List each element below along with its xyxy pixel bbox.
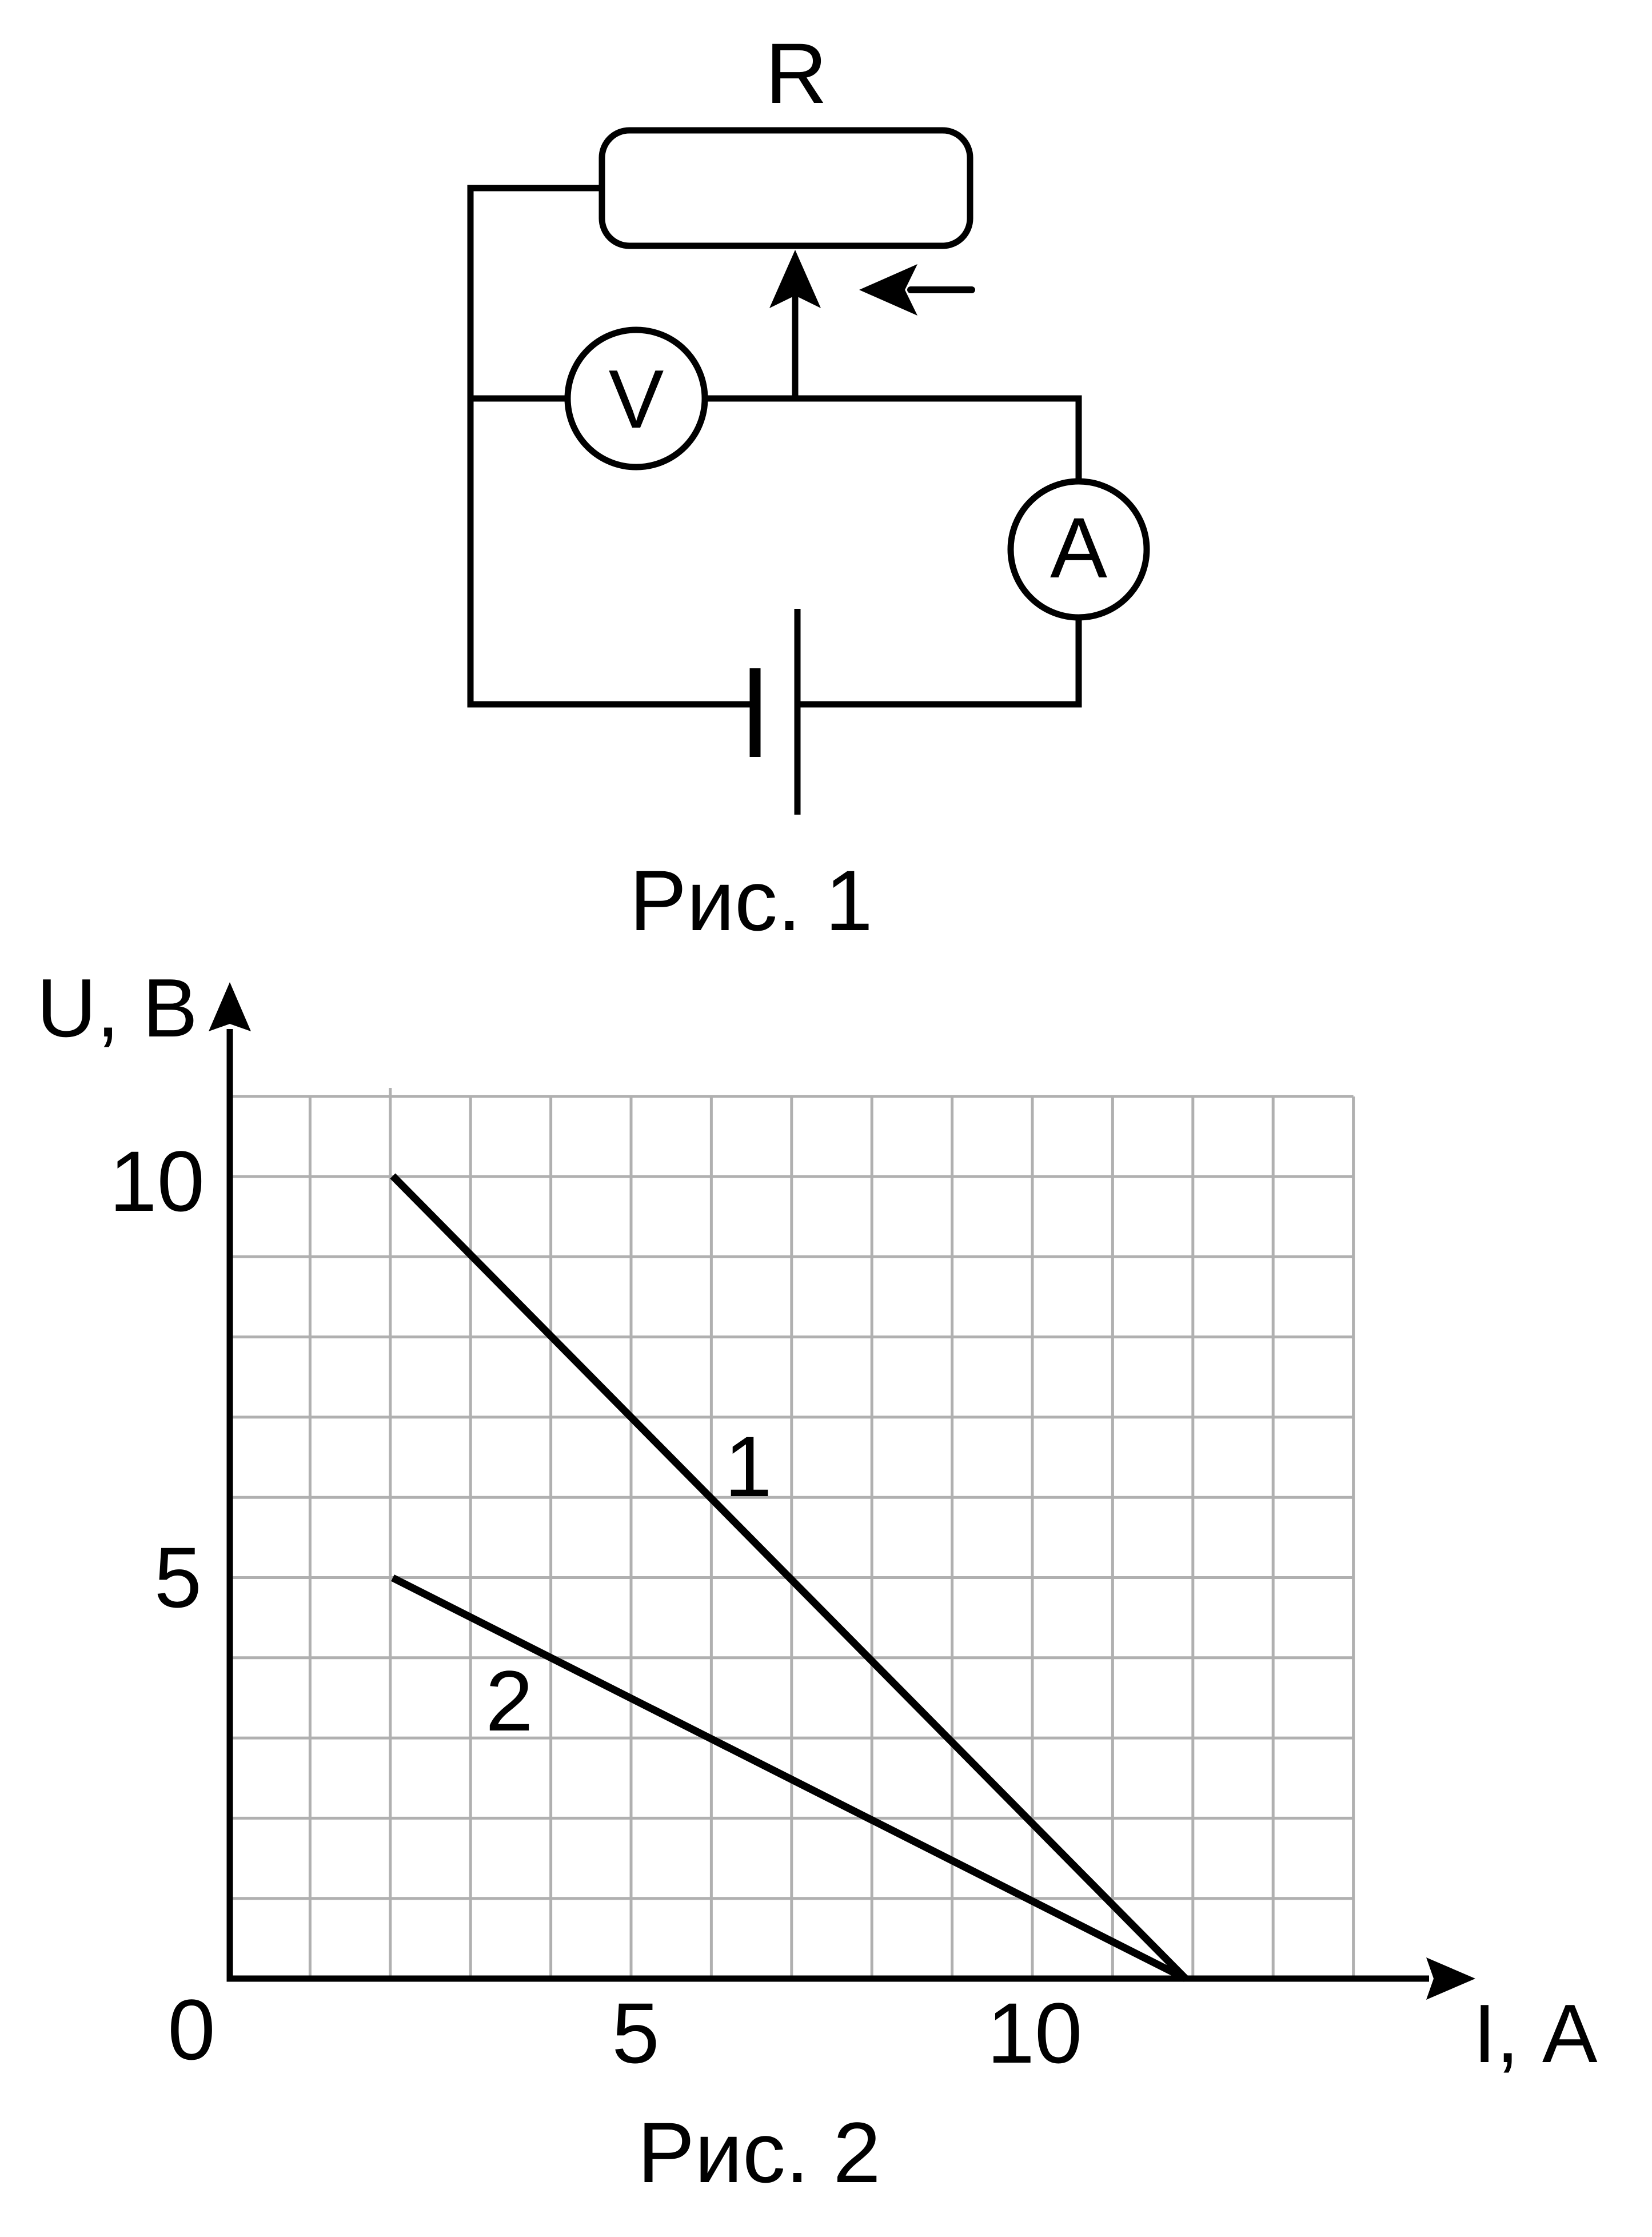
battery positive plate (long) [795,609,801,815]
rheostat wiper arrowhead [769,250,821,308]
svg-text:I, А: I, А [1473,1987,1598,2080]
slider adjust arrowhead [859,264,917,316]
wire bottom right segment [797,701,1082,708]
battery negative plate (short thick) [750,668,761,757]
svg-text:R: R [765,25,827,121]
svg-text:Рис. 2: Рис. 2 [637,2104,881,2200]
ammeter A1 circle [1011,481,1147,617]
slider adjust arrow shaft [911,286,972,293]
wire left vertical [468,185,474,708]
svg-text:V: V [609,353,664,445]
y axis arrowhead [209,982,251,1031]
x axis I [227,1976,1430,1982]
svg-text:2: 2 [485,1653,533,1749]
svg-text:U, В: U, В [37,962,198,1054]
svg-text:Рис. 1: Рис. 1 [629,852,873,948]
svg-text:10: 10 [987,1985,1083,2081]
rheostat wiper arrow shaft [792,296,799,398]
svg-text:5: 5 [612,1985,659,2081]
svg-text:1: 1 [724,1418,772,1514]
wire middle horizontal right segment (voltmeter to right corner) [705,396,1082,402]
wire middle horizontal left segment (left wire to voltmeter) [468,396,569,402]
wire bottom left segment [468,701,753,708]
voltmeter U1 circle [568,330,705,467]
wire stub rheostat-left to left vertical wire [468,185,602,192]
y axis U [227,1029,233,1982]
curve 2 [393,1578,1186,1979]
x axis arrowhead [1426,1957,1475,2000]
wire right vertical upper (corner to ammeter) [1076,396,1082,483]
svg-text:0: 0 [167,1981,215,2078]
svg-text:A: A [1050,500,1107,596]
rheostat R body [602,130,970,246]
grid tick artifact above top at x=2 [389,1088,392,1096]
svg-text:5: 5 [154,1529,202,1625]
wire right vertical lower (ammeter to bottom wire) [1076,616,1082,708]
graph grid [230,1096,1354,1979]
curve 1 [393,1176,1186,1979]
svg-text:10: 10 [109,1133,205,1229]
